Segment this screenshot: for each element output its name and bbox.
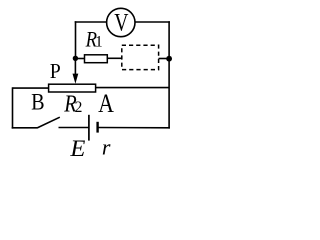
wire R1 to dashed box xyxy=(107,57,122,59)
potentiometer R2 body xyxy=(49,84,96,117)
battery cell E r : long plate xyxy=(88,115,90,141)
wire B terminal to left vertical xyxy=(13,87,49,89)
svg-text:P: P xyxy=(50,59,61,83)
wire battery to bottom right xyxy=(98,127,170,129)
svg-text:B: B xyxy=(31,90,44,116)
svg-text:1: 1 xyxy=(95,33,103,50)
svg-text:V: V xyxy=(114,7,129,36)
wire left vertical xyxy=(12,87,14,128)
wire bottom left to switch pivot xyxy=(12,127,38,129)
dashed box component xyxy=(122,45,159,69)
svg-text:r: r xyxy=(102,134,111,159)
wire right vertical xyxy=(168,21,170,128)
wire dashed box to right node xyxy=(159,58,169,60)
resistor R1 xyxy=(85,26,108,62)
switch blade (open) xyxy=(37,117,60,128)
wire top-left horizontal to voltmeter xyxy=(75,21,107,23)
node junction dot right xyxy=(166,56,172,62)
wire voltmeter to top-right corner xyxy=(135,21,170,23)
svg-text:A: A xyxy=(98,88,114,118)
voltmeter V xyxy=(107,7,135,36)
battery cell short plate xyxy=(96,122,98,133)
wire A terminal to right vertical xyxy=(96,87,169,89)
svg-text:E: E xyxy=(69,136,85,161)
wiper arrow from junction down to potentiometer xyxy=(73,59,79,84)
svg-text:2: 2 xyxy=(75,99,83,116)
wire junction to R1 xyxy=(75,58,84,60)
wire left vertical from top corner to node P junction xyxy=(75,21,77,58)
node junction dot at wiper branch xyxy=(73,56,78,61)
wire switch to battery xyxy=(59,127,89,129)
